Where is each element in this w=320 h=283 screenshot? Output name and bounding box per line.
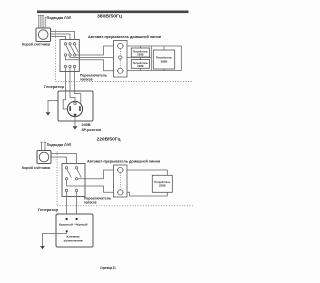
wire stub big box top	[163, 46, 165, 50]
svg-text:Короб счётчика: Короб счётчика	[22, 41, 51, 46]
wire switch output bottom (bottom)	[67, 180, 114, 192]
switch top contact 1 (bottom)	[65, 167, 67, 169]
meter dial circle bottom	[39, 152, 49, 162]
switch blade 1 (bottom)	[67, 169, 72, 178]
wire service drop L3	[42, 15, 44, 28]
wire generator feed 2 (bottom)	[76, 192, 78, 214]
transfer switch box	[60, 40, 79, 72]
wire switch output mid	[70, 56, 114, 57]
switch bottom contact 2 (bottom)	[75, 189, 77, 191]
wire meter to switch pole 3	[51, 32, 75, 40]
svg-text:Красный: Красный	[59, 222, 73, 226]
receptacle bottom slot	[74, 114, 77, 117]
generator terminal 2	[76, 218, 78, 220]
switch blade 3	[75, 45, 79, 53]
wire service drop neutral	[44, 142, 46, 151]
wire switch output bottom	[66, 56, 114, 71]
switch bottom contact 2	[69, 65, 71, 67]
consumer box 2 (220V)	[131, 60, 149, 69]
receptacle top pin	[74, 102, 76, 104]
wire stub big box bottom	[163, 69, 165, 71]
receptacle box	[58, 91, 93, 121]
consumer box 3 (380V)	[153, 50, 174, 69]
wire generator feed 1 (bottom)	[66, 192, 68, 214]
breaker fuse 2 (bottom)	[118, 190, 123, 195]
breaker fuse 1 terminal dots	[117, 45, 124, 47]
consumer box 220V (bottom)	[152, 175, 172, 192]
svg-text:Подводка ЛЭП: Подводка ЛЭП	[47, 15, 72, 20]
switch blade 2	[70, 45, 74, 54]
dashed boundary vertical (bottom)	[56, 152, 58, 206]
ground wire from generator	[43, 232, 67, 246]
transfer switch box (bottom)	[62, 164, 85, 197]
breaker fuse 1 dots (bottom)	[117, 169, 124, 171]
ground arrow (generator)	[40, 246, 45, 249]
wire generator feed 1	[65, 68, 67, 91]
wire meter to switch pole 2 (bottom)	[51, 154, 77, 164]
wire consumer1 to consumer2	[139, 57, 141, 60]
dashed panel boundary horizontal	[56, 81, 194, 83]
wire into right pin	[75, 91, 81, 105]
wire generator feed 3	[74, 68, 76, 91]
svg-text:Страница 23: Страница 23	[100, 266, 116, 270]
svg-text:Генератор: Генератор	[44, 84, 65, 89]
wire meter to switch pole 2	[51, 34, 71, 40]
switch bottom contact 3	[73, 65, 75, 67]
svg-text:Автомат-прерыватель домашней л: Автомат-прерыватель домашней линии	[87, 158, 161, 163]
switch top contact 1	[64, 43, 66, 45]
wire generator feed 2	[69, 68, 71, 91]
breaker panel box	[114, 41, 128, 78]
svg-text:220В: 220В	[159, 184, 166, 188]
breaker fuse 1	[118, 43, 123, 48]
svg-text:полюсов: полюсов	[80, 77, 93, 81]
svg-text:заземления: заземления	[64, 239, 83, 243]
svg-text:220В: 220В	[137, 64, 143, 68]
meter box (korob schetchika)	[36, 28, 51, 42]
svg-text:220В/50Гц: 220В/50Гц	[97, 137, 121, 142]
switch blade 1	[66, 45, 70, 54]
wire service drop L1	[38, 15, 40, 28]
breaker fuse 3 terminal dots	[117, 70, 124, 72]
wire breaker to consumer top (bottom)	[127, 170, 167, 175]
switch blade 2 (bottom)	[77, 169, 82, 178]
wire vertical link	[150, 46, 152, 71]
receptacle face circle	[67, 101, 82, 116]
switch mid contact 2	[69, 54, 71, 56]
svg-text:380В: 380В	[161, 59, 168, 63]
wire junction drop to consumer 1	[139, 46, 141, 48]
dashed boundary horizontal (bottom)	[57, 205, 193, 207]
svg-text:240В: 240В	[82, 123, 91, 127]
svg-text:Автомат-прерыватель домашней л: Автомат-прерыватель домашней линии	[88, 34, 162, 39]
meter box bottom	[37, 151, 51, 164]
switch mid contact 1	[64, 54, 66, 56]
breaker linkage dotted	[119, 49, 121, 68]
wire breaker output top loop	[127, 46, 181, 71]
generator terminal box	[56, 214, 93, 247]
breaker fuse 2 dots (bottom)	[117, 191, 124, 193]
switch top contact 2 (bottom)	[75, 167, 77, 169]
svg-text:Короб счётчика: Короб счётчика	[22, 165, 51, 170]
switch bottom contact 1	[64, 65, 66, 67]
switch mid contact 1 (bottom)	[65, 178, 67, 180]
ground arrow bottom	[73, 126, 78, 129]
ground arrow left	[46, 112, 51, 115]
wire switch output top (bottom)	[78, 170, 114, 179]
wire switch output top	[76, 46, 114, 55]
ground junction terminal	[66, 230, 68, 232]
svg-text:Чёрный: Чёрный	[75, 222, 88, 226]
svg-text:Генератор: Генератор	[38, 207, 59, 212]
power bus bar (utility line)	[37, 11, 189, 14]
wire into left pin	[63, 91, 67, 109]
svg-text:380В/50Гц: 380В/50Гц	[97, 14, 122, 19]
switch mid contact 2 (bottom)	[75, 178, 77, 180]
wire service drop N	[45, 17, 47, 28]
svg-text:4Р-розетка: 4Р-розетка	[82, 128, 102, 132]
wire meter to switch pole 1 (bottom)	[51, 157, 67, 164]
switch top contact 3	[73, 43, 75, 45]
switch mid contact 3	[73, 54, 75, 56]
ground wire from receptacle	[48, 100, 58, 112]
wire consumer2 to bottom	[139, 68, 141, 70]
wire service drop L2	[40, 15, 42, 28]
svg-text:полюсов: полюсов	[84, 201, 97, 205]
dashed panel boundary vertical	[55, 30, 57, 82]
wire meter to switch pole 1	[51, 37, 66, 40]
switch top contact 2	[69, 43, 71, 45]
neutral wire down	[74, 117, 76, 127]
consumer box 1 (220V)	[131, 48, 149, 57]
breaker panel box (bottom)	[114, 165, 128, 197]
receptacle left slot	[69, 106, 71, 111]
wire breaker output mid	[127, 57, 151, 59]
breaker fuse 3	[118, 68, 123, 73]
svg-text:220В: 220В	[137, 53, 143, 57]
svg-text:Подводка ЛЭП: Подводка ЛЭП	[47, 142, 72, 147]
breaker fuse 1 (bottom)	[118, 167, 123, 172]
breaker fuse 2	[119, 56, 122, 59]
breaker linkage dotted (bottom)	[119, 173, 121, 190]
meter dial circle	[38, 30, 48, 40]
wire breaker to consumer bottom (bottom)	[127, 192, 167, 196]
wire service drop line	[41, 142, 43, 151]
wire into top pin	[70, 91, 75, 101]
switch bottom contact 1 (bottom)	[65, 189, 67, 191]
receptacle right slot	[79, 106, 81, 111]
generator terminal 1	[66, 218, 68, 220]
